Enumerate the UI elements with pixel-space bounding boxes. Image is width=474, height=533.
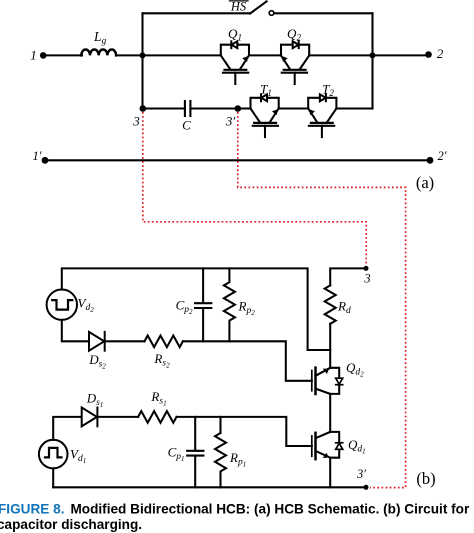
svg-text:(a): (a) [416, 173, 434, 192]
wire node3 to C [143, 107, 185, 109]
diode Ds2 [89, 332, 104, 351]
node 3' [235, 105, 242, 112]
circuit b top rail [62, 268, 330, 350]
wire T2 to right vertical [336, 107, 372, 109]
svg-text:FIGURE 8.Modified Bidirectiona: FIGURE 8.Modified Bidirectional HCB: (a)… [0, 502, 470, 517]
node 2' [427, 157, 434, 164]
node 3' of circuit b [364, 485, 369, 490]
wire vertical up to HS rail [141, 13, 143, 55]
red dotted link node3 to circuit b node 3 [143, 112, 366, 265]
svg-text:3′: 3′ [356, 467, 366, 481]
capacitor C [184, 101, 186, 116]
svg-text:2: 2 [437, 46, 444, 61]
wire junction to node 2 [373, 54, 429, 56]
svg-text:3: 3 [363, 272, 370, 286]
svg-text:2′: 2′ [438, 149, 447, 163]
junction node right [370, 52, 376, 58]
junction node at top rail tap [140, 52, 146, 58]
IGBT Qd2 [312, 368, 343, 394]
voltage source Vd1 [39, 440, 68, 469]
wire Lg to junction [116, 54, 142, 56]
svg-text:1′: 1′ [33, 149, 42, 163]
wire HS rail right [274, 12, 373, 14]
resistor Rs1 [138, 411, 176, 423]
svg-text:3: 3 [132, 114, 140, 129]
wire Q2 to junction [309, 54, 372, 56]
bottom rail of circuit b [53, 486, 366, 488]
svg-text:(b): (b) [416, 469, 435, 488]
node 3 of circuit b [364, 266, 369, 271]
node 1' [42, 157, 49, 164]
wire node1 to Lg [43, 54, 82, 56]
wire Ds2 to Rs2 [105, 340, 145, 342]
svg-text:HS: HS [230, 0, 247, 13]
switch HS contact [269, 11, 274, 16]
svg-text:C: C [182, 118, 191, 133]
svg-text:3′: 3′ [225, 114, 236, 129]
IGBT T2 (mirrored) [308, 94, 336, 137]
resistor Rs2 [145, 336, 183, 348]
wire Q1 to Q2 [249, 54, 281, 56]
capacitor Cp1 [194, 417, 196, 451]
wire junction to Q1 [143, 54, 221, 56]
capacitor Cp2 [202, 268, 204, 303]
wire Rs1 to gate corner [177, 417, 312, 446]
wire Qd2 emitter to Qd1 collector [329, 394, 331, 432]
wire Vd2 to Ds2 row [62, 320, 89, 341]
wire junction down to node 3 [141, 55, 143, 108]
inductor Lg [81, 50, 116, 56]
wire vertical down right [371, 13, 373, 108]
resistor Rp1 [215, 417, 226, 487]
IGBT Q1 [221, 41, 249, 84]
svg-text:capacitor discharging.: capacitor discharging. [0, 517, 142, 532]
resistor Rp2 [224, 268, 235, 341]
wire C to node 3' [190, 107, 237, 109]
wire 1' to 2' [45, 159, 430, 161]
svg-text:1: 1 [30, 48, 37, 63]
wire Ds1 to Rs1 [97, 416, 138, 418]
wire Rs2 to gate corner [183, 341, 312, 381]
IGBT T1 [251, 94, 279, 137]
resistor Rd [325, 285, 336, 323]
wire Vd1 to bottom rail [52, 468, 54, 487]
voltage source Vd2 [47, 290, 77, 320]
node 1 [40, 52, 47, 59]
wire Rd top segment and node 3 rail [330, 268, 366, 285]
wire 3' to T1 [238, 107, 251, 109]
IGBT Q2 (mirrored) [281, 41, 309, 84]
node 2 [425, 51, 432, 58]
wire Rd to Qd2 collector [329, 324, 331, 368]
wire HS rail left [143, 12, 251, 14]
red dotted link node3' to circuit b node 3' [238, 112, 406, 488]
switch HS blade [250, 1, 267, 13]
diode Ds1 [82, 408, 97, 427]
wire T1 to T2 [279, 107, 309, 109]
IGBT Qd1 [312, 432, 343, 459]
node 3 [140, 105, 147, 112]
wire Vd1 to Ds1 row [53, 417, 81, 440]
wire Qd1 emitter to bottom rail [329, 458, 331, 488]
